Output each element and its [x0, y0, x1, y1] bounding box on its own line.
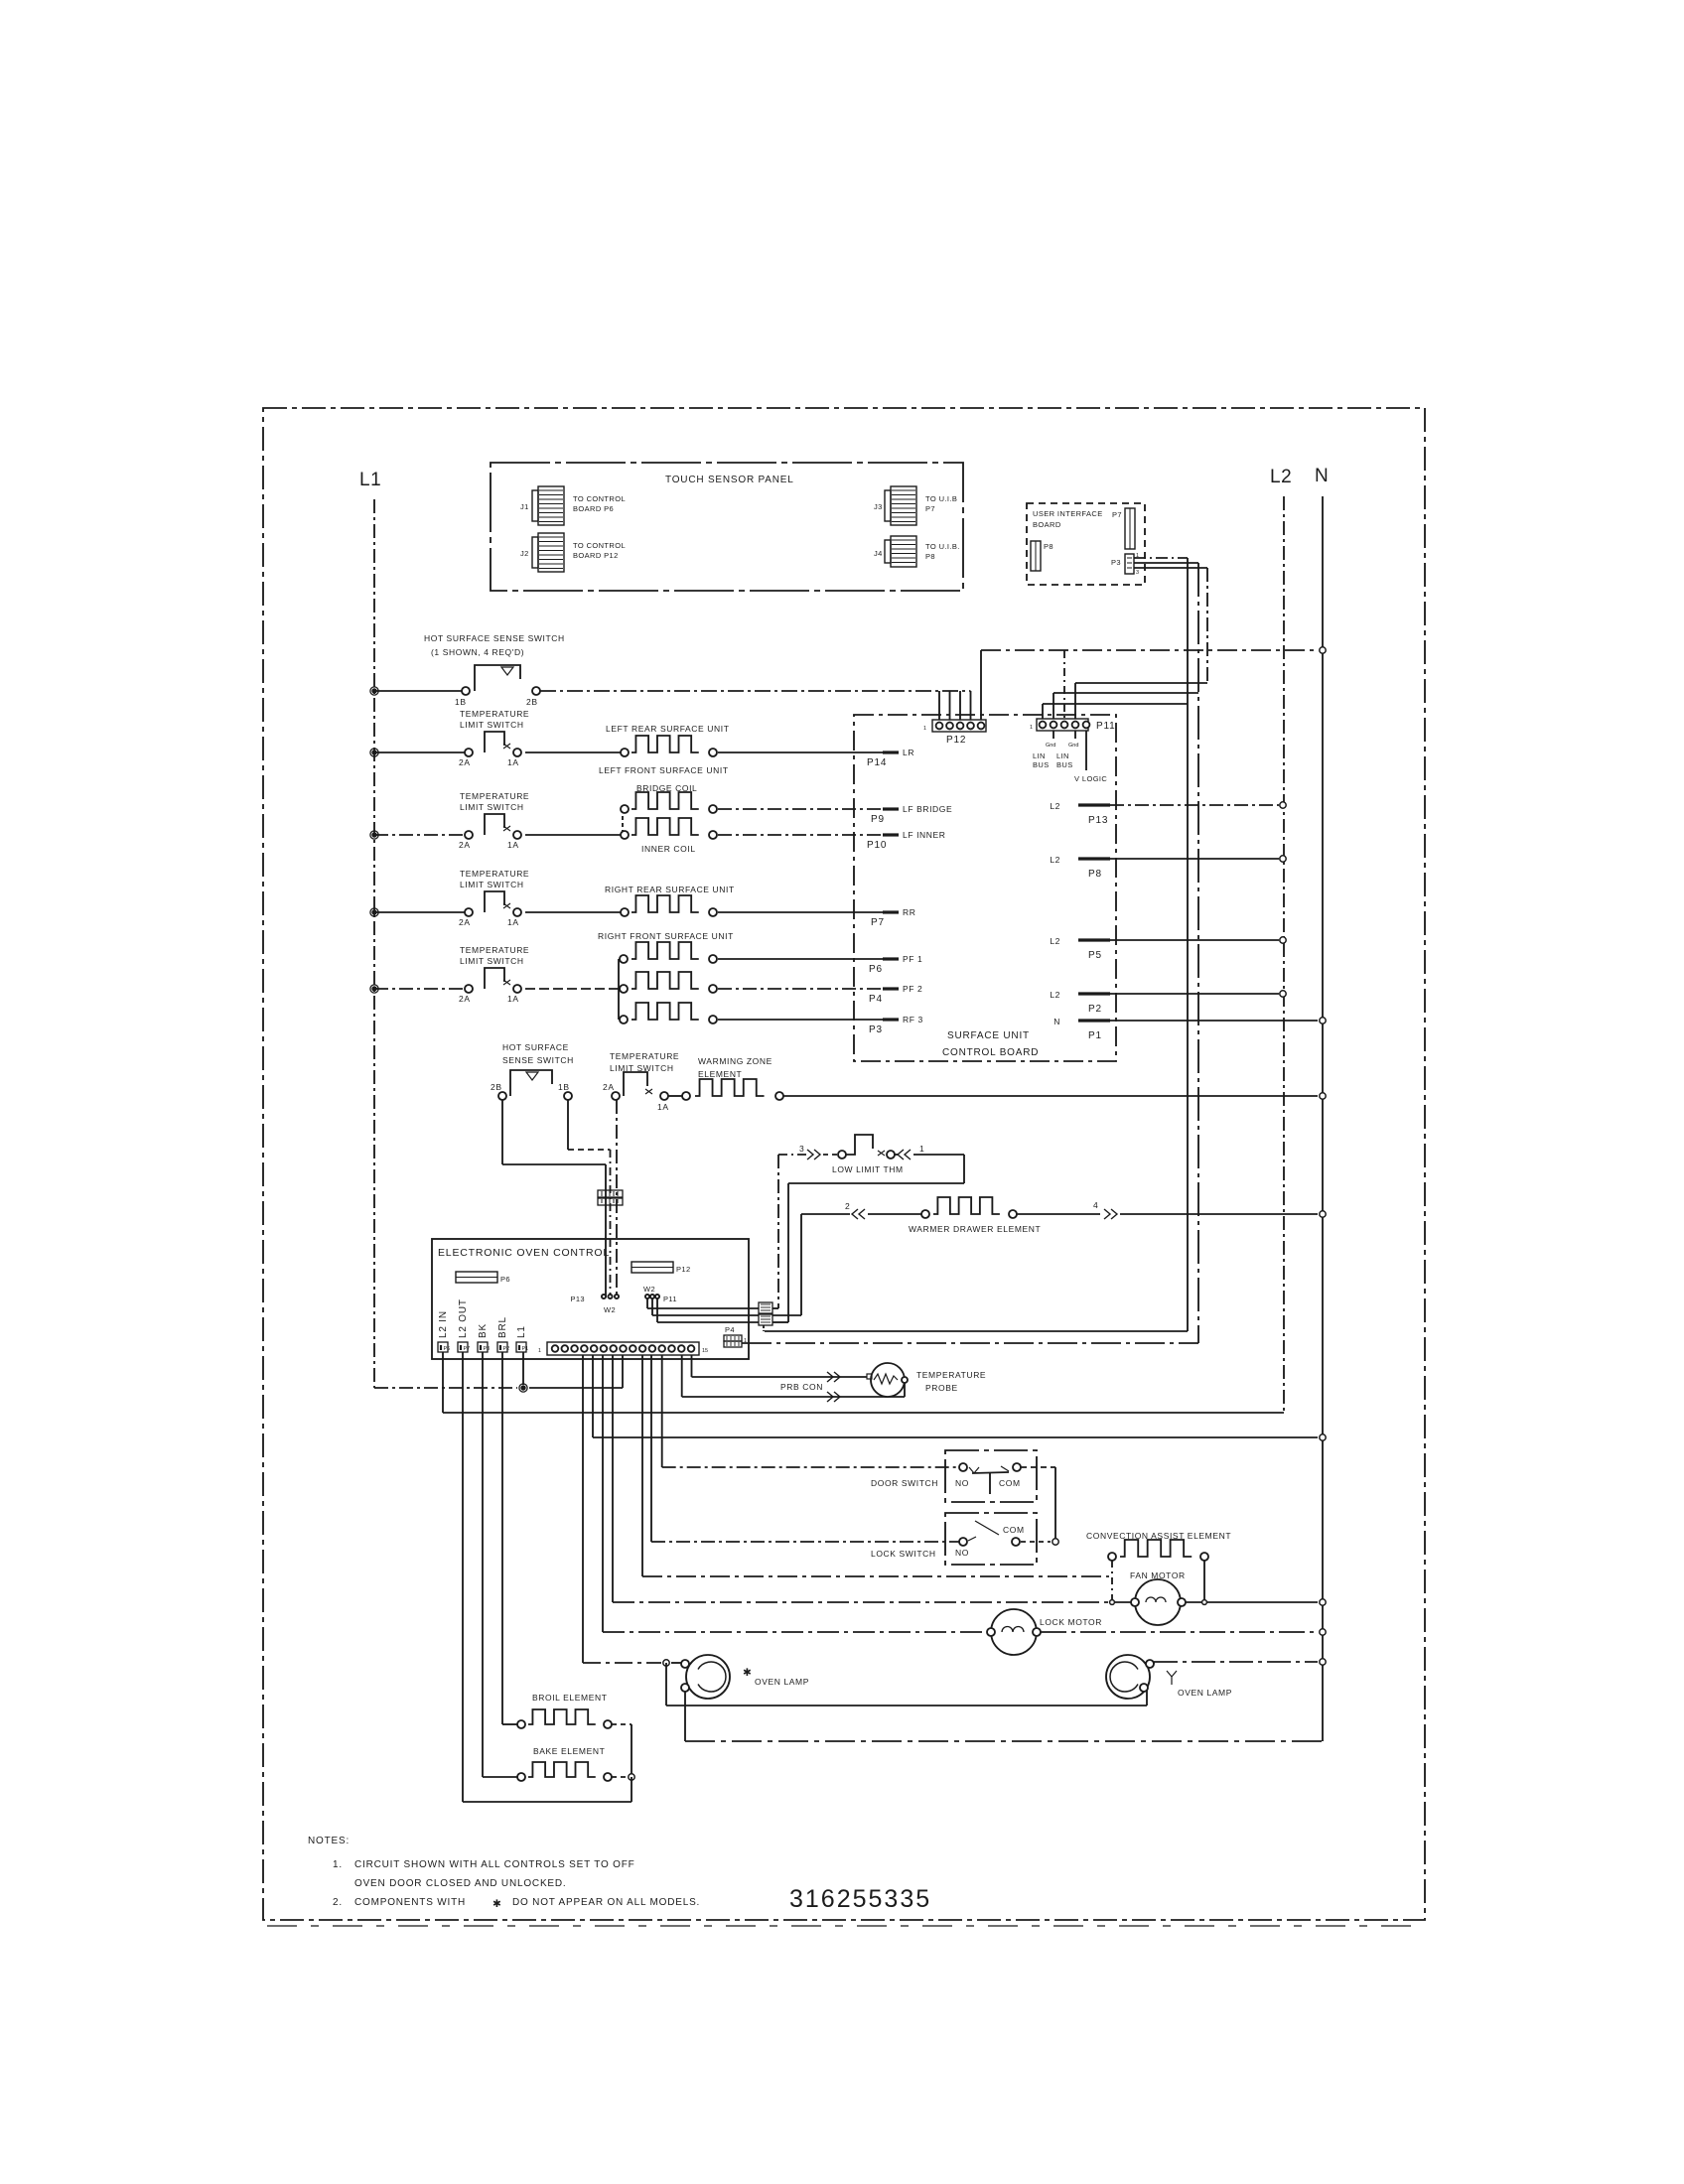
svg-text:TEMPERATURE: TEMPERATURE: [460, 709, 529, 719]
svg-text:P1: P1: [522, 1346, 529, 1352]
svg-text:BUS: BUS: [1056, 760, 1073, 769]
svg-text:INNER COIL: INNER COIL: [641, 844, 696, 854]
svg-text:P4: P4: [725, 1325, 735, 1334]
svg-text:P2: P2: [1088, 1004, 1102, 1015]
svg-text:L2 OUT: L2 OUT: [458, 1298, 469, 1338]
svg-text:OVEN LAMP: OVEN LAMP: [1178, 1688, 1232, 1698]
svg-text:P11: P11: [1096, 721, 1115, 732]
svg-text:P13: P13: [1088, 815, 1108, 826]
svg-text:✱: ✱: [743, 1667, 753, 1679]
svg-text:P14: P14: [867, 757, 887, 768]
svg-text:LEFT FRONT SURFACE UNIT: LEFT FRONT SURFACE UNIT: [599, 765, 729, 775]
svg-text:L2: L2: [1270, 467, 1292, 487]
svg-text:2B: 2B: [491, 1082, 502, 1092]
svg-text:LOCK SWITCH: LOCK SWITCH: [871, 1549, 936, 1559]
svg-text:BAKE ELEMENT: BAKE ELEMENT: [533, 1746, 605, 1756]
svg-text:COM: COM: [1003, 1525, 1025, 1535]
svg-text:4: 4: [1093, 1200, 1098, 1210]
svg-text:RIGHT FRONT SURFACE UNIT: RIGHT FRONT SURFACE UNIT: [598, 931, 734, 941]
svg-text:P11: P11: [663, 1295, 677, 1303]
svg-text:LOW LIMIT THM: LOW LIMIT THM: [832, 1164, 904, 1174]
svg-text:TO CONTROL: TO CONTROL: [573, 494, 626, 503]
svg-text:P6: P6: [869, 964, 883, 975]
svg-text:CONTROL BOARD: CONTROL BOARD: [942, 1047, 1039, 1058]
svg-text:P12: P12: [946, 735, 966, 746]
svg-text:1B: 1B: [558, 1082, 570, 1092]
svg-text:P3: P3: [869, 1024, 883, 1035]
svg-text:V LOGIC: V LOGIC: [1074, 774, 1107, 783]
svg-text:W2: W2: [643, 1285, 655, 1294]
svg-text:DOOR SWITCH: DOOR SWITCH: [871, 1478, 938, 1488]
svg-text:LOCK MOTOR: LOCK MOTOR: [1040, 1617, 1102, 1627]
svg-text:LEFT REAR SURFACE UNIT: LEFT REAR SURFACE UNIT: [606, 724, 730, 734]
svg-text:P5: P5: [1088, 950, 1102, 961]
svg-text:PRB CON: PRB CON: [780, 1382, 823, 1392]
svg-text:L2 IN: L2 IN: [438, 1310, 449, 1338]
svg-text:P6: P6: [444, 1346, 451, 1352]
svg-text:N: N: [1315, 466, 1329, 486]
svg-text:LF INNER: LF INNER: [903, 830, 946, 840]
svg-text:1A: 1A: [507, 757, 519, 767]
svg-text:N: N: [1053, 1017, 1060, 1026]
svg-text:LIMIT SWITCH: LIMIT SWITCH: [460, 802, 524, 812]
svg-text:ELEMENT: ELEMENT: [698, 1069, 742, 1079]
svg-text:USER INTERFACE: USER INTERFACE: [1033, 509, 1103, 518]
svg-text:L1: L1: [516, 1325, 527, 1338]
svg-text:TO U.I.B.: TO U.I.B.: [925, 542, 960, 551]
svg-text:TOUCH SENSOR PANEL: TOUCH SENSOR PANEL: [665, 475, 794, 485]
svg-text:NO: NO: [955, 1478, 969, 1488]
svg-text:W2: W2: [604, 1305, 616, 1314]
svg-text:1A: 1A: [507, 840, 519, 850]
svg-text:P8: P8: [925, 552, 935, 561]
svg-text:LIMIT SWITCH: LIMIT SWITCH: [460, 956, 524, 966]
svg-text:1B: 1B: [455, 697, 467, 707]
svg-text:PF 1: PF 1: [903, 954, 922, 964]
svg-text:SENSE SWITCH: SENSE SWITCH: [502, 1055, 574, 1065]
svg-text:BROIL ELEMENT: BROIL ELEMENT: [532, 1693, 608, 1703]
svg-text:WARMER DRAWER ELEMENT: WARMER DRAWER ELEMENT: [909, 1224, 1041, 1234]
svg-text:RF 3: RF 3: [903, 1015, 923, 1024]
svg-text:COM: COM: [999, 1478, 1021, 1488]
svg-text:15: 15: [702, 1348, 708, 1354]
svg-text:✱: ✱: [492, 1898, 502, 1910]
svg-text:NOTES:: NOTES:: [308, 1836, 350, 1846]
svg-text:TEMPERATURE: TEMPERATURE: [460, 791, 529, 801]
svg-text:3: 3: [1136, 570, 1139, 576]
svg-text:BK: BK: [478, 1323, 489, 1338]
svg-text:P7: P7: [925, 504, 935, 513]
svg-text:LIN: LIN: [1033, 751, 1046, 760]
svg-text:L2: L2: [1050, 855, 1060, 865]
svg-text:ELECTRONIC OVEN CONTROL: ELECTRONIC OVEN CONTROL: [438, 1247, 610, 1259]
svg-text:2A: 2A: [603, 1082, 615, 1092]
svg-text:J4: J4: [874, 549, 883, 558]
svg-text:J2: J2: [520, 549, 529, 558]
svg-text:P9: P9: [871, 814, 885, 825]
svg-text:P13: P13: [570, 1295, 585, 1303]
svg-text:2: 2: [845, 1201, 850, 1211]
svg-text:3: 3: [799, 1144, 804, 1154]
svg-text:L2: L2: [1050, 936, 1060, 946]
svg-text:HOT SURFACE: HOT SURFACE: [502, 1042, 569, 1052]
svg-text:L1: L1: [359, 470, 381, 490]
svg-text:TO U.I.B: TO U.I.B: [925, 494, 957, 503]
svg-text:1: 1: [923, 726, 926, 732]
svg-text:DO NOT APPEAR ON ALL MODELS.: DO NOT APPEAR ON ALL MODELS.: [512, 1897, 700, 1908]
svg-text:PROBE: PROBE: [925, 1383, 958, 1393]
svg-text:P7: P7: [464, 1346, 471, 1352]
svg-text:1A: 1A: [657, 1102, 669, 1112]
svg-text:P8: P8: [1088, 869, 1102, 880]
svg-text:P4: P4: [869, 994, 883, 1005]
svg-text:P6: P6: [500, 1275, 510, 1284]
svg-text:OVEN DOOR CLOSED AND UNLOCKED.: OVEN DOOR CLOSED AND UNLOCKED.: [354, 1878, 566, 1889]
svg-text:P12: P12: [676, 1265, 691, 1274]
svg-text:HOT SURFACE SENSE SWITCH: HOT SURFACE SENSE SWITCH: [424, 633, 565, 643]
svg-text:2.: 2.: [333, 1897, 343, 1908]
svg-text:L2: L2: [1050, 990, 1060, 1000]
svg-text:P7: P7: [1112, 510, 1122, 519]
svg-text:TEMPERATURE: TEMPERATURE: [916, 1370, 986, 1380]
svg-text:RIGHT REAR SURFACE UNIT: RIGHT REAR SURFACE UNIT: [605, 885, 735, 894]
svg-text:2A: 2A: [459, 917, 471, 927]
svg-text:COMPONENTS WITH: COMPONENTS WITH: [354, 1897, 466, 1908]
svg-text:2A: 2A: [459, 840, 471, 850]
svg-text:316255335: 316255335: [789, 1885, 931, 1913]
svg-text:P8: P8: [1044, 542, 1053, 551]
svg-text:BUS: BUS: [1033, 760, 1050, 769]
svg-text:BOARD: BOARD: [1033, 520, 1061, 529]
svg-text:OVEN LAMP: OVEN LAMP: [755, 1677, 809, 1687]
svg-text:Gnd: Gnd: [1068, 743, 1078, 749]
svg-text:2A: 2A: [459, 757, 471, 767]
svg-text:SURFACE UNIT: SURFACE UNIT: [947, 1030, 1030, 1041]
svg-text:BRL: BRL: [497, 1316, 508, 1338]
svg-text:BOARD P6: BOARD P6: [573, 504, 614, 513]
svg-text:RR: RR: [903, 907, 915, 917]
svg-text:P2: P2: [503, 1346, 510, 1352]
svg-text:1.: 1.: [333, 1859, 343, 1870]
svg-text:TEMPERATURE: TEMPERATURE: [460, 945, 529, 955]
svg-text:TEMPERATURE: TEMPERATURE: [610, 1051, 679, 1061]
svg-text:LIMIT SWITCH: LIMIT SWITCH: [460, 720, 524, 730]
svg-text:1: 1: [538, 1348, 541, 1354]
svg-text:P3: P3: [1111, 558, 1121, 567]
svg-text:TO CONTROL: TO CONTROL: [573, 541, 626, 550]
svg-text:LIMIT SWITCH: LIMIT SWITCH: [460, 880, 524, 889]
svg-text:CIRCUIT SHOWN WITH ALL CONTROL: CIRCUIT SHOWN WITH ALL CONTROLS SET TO O…: [354, 1859, 635, 1870]
svg-text:J3: J3: [874, 502, 883, 511]
svg-text:1A: 1A: [507, 994, 519, 1004]
svg-text:LIN: LIN: [1056, 751, 1069, 760]
svg-text:WARMING ZONE: WARMING ZONE: [698, 1056, 772, 1066]
svg-text:2A: 2A: [459, 994, 471, 1004]
svg-text:P7: P7: [871, 917, 885, 928]
svg-text:P1: P1: [1088, 1030, 1102, 1041]
svg-text:1A: 1A: [507, 917, 519, 927]
svg-text:Gnd: Gnd: [1046, 743, 1055, 749]
svg-text:LR: LR: [903, 748, 914, 757]
svg-text:P3: P3: [484, 1346, 491, 1352]
svg-text:BOARD P12: BOARD P12: [573, 551, 619, 560]
svg-text:PF 2: PF 2: [903, 984, 922, 994]
svg-text:LF BRIDGE: LF BRIDGE: [903, 804, 952, 814]
svg-text:P10: P10: [867, 840, 887, 851]
svg-text:1: 1: [919, 1144, 924, 1154]
svg-text:1: 1: [1030, 725, 1033, 731]
svg-text:L2: L2: [1050, 801, 1060, 811]
svg-text:(1 SHOWN, 4 REQ'D): (1 SHOWN, 4 REQ'D): [431, 647, 524, 657]
svg-text:TEMPERATURE: TEMPERATURE: [460, 869, 529, 879]
svg-text:NO: NO: [955, 1548, 969, 1558]
svg-text:2B: 2B: [526, 697, 538, 707]
svg-text:J1: J1: [520, 502, 529, 511]
